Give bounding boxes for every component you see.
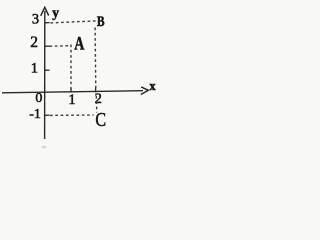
x-axis [2, 91, 143, 93]
svg-text:y: y [52, 5, 59, 20]
svg-text:2: 2 [95, 91, 102, 107]
svg-text:1: 1 [68, 92, 75, 108]
tick x=2 [95, 88, 97, 92]
dashed line x=1 from A down to axis [70, 45, 72, 92]
svg-text:C: C [95, 108, 106, 130]
dashed line x=2 from B down to axis [94, 28, 97, 92]
tick y=1 [45, 69, 50, 71]
faint smudge below y-axis end [42, 146, 47, 149]
svg-text:0: 0 [35, 91, 42, 106]
svg-text:-1: -1 [29, 107, 41, 122]
svg-text:B: B [97, 13, 105, 30]
dashed line x=2 from axis down to C [95, 96, 98, 113]
svg-text:x: x [149, 79, 156, 93]
dashed line y=2 to A [50, 45, 72, 48]
dashed line y=-1 to C [50, 114, 94, 116]
svg-text:A: A [74, 32, 85, 54]
tick y=3 [45, 22, 50, 24]
svg-text:1: 1 [31, 61, 38, 77]
tick y=2 [45, 45, 50, 47]
svg-text:3: 3 [32, 12, 39, 28]
y-axis arrowhead [41, 7, 49, 15]
dashed line y=3 to B [51, 21, 96, 23]
x-axis arrowhead [141, 87, 149, 95]
y-axis [44, 11, 46, 139]
tick x=1 [70, 88, 72, 93]
tick y=-1 [45, 114, 50, 116]
svg-text:2: 2 [30, 34, 38, 51]
